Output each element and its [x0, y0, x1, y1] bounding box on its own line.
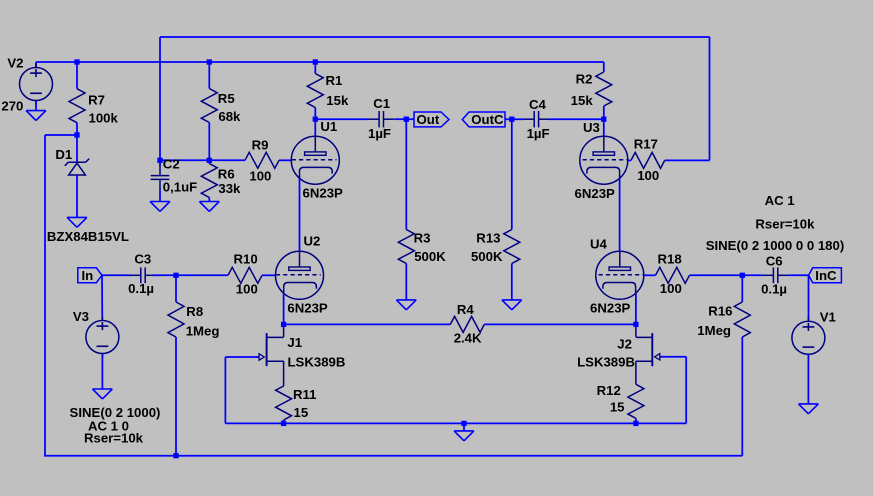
wire C4 to R2 node	[549, 118, 604, 120]
wire V3 top lead	[101, 275, 103, 320]
svg-text:1µF: 1µF	[527, 126, 550, 141]
voltage source V1	[792, 317, 825, 358]
wire D1 top lead	[76, 135, 78, 162]
svg-text:AC 1: AC 1	[765, 193, 795, 208]
svg-text:U1: U1	[320, 119, 337, 134]
svg-text:R5: R5	[218, 91, 235, 106]
svg-text:1Meg: 1Meg	[697, 323, 731, 338]
svg-text:R16: R16	[708, 304, 732, 319]
voltage source V3	[86, 317, 119, 358]
capacitor C4	[523, 111, 549, 127]
svg-text:C1: C1	[373, 96, 390, 111]
resistor R17	[628, 152, 710, 168]
svg-text:R12: R12	[597, 383, 621, 398]
svg-text:SINE(0 2 1000 0 0 180): SINE(0 2 1000 0 0 180)	[706, 238, 845, 253]
capacitor C6	[763, 267, 789, 283]
resistor R11	[276, 386, 292, 423]
wire top rail left drop	[159, 37, 161, 160]
svg-text:6N23P: 6N23P	[590, 301, 631, 316]
svg-text:0,1uF: 0,1uF	[163, 180, 197, 195]
svg-text:R3: R3	[414, 230, 431, 245]
wire C1 to Out node	[395, 118, 407, 120]
wire D1 bottom lead	[76, 175, 78, 218]
svg-text:C4: C4	[529, 97, 547, 112]
wire C2 top lead	[159, 160, 161, 166]
svg-text:OutC: OutC	[471, 112, 504, 127]
wire R6 node to R9	[209, 159, 245, 161]
svg-text:R11: R11	[293, 387, 316, 402]
wire R7 to D1 node	[45, 134, 77, 136]
resistor R6	[201, 160, 217, 202]
junction B+ R7	[74, 59, 79, 64]
triode U1	[291, 136, 339, 184]
svg-text:C6: C6	[766, 254, 783, 269]
net flag Out	[414, 112, 449, 127]
svg-text:1µF: 1µF	[368, 126, 391, 141]
resistor R2	[596, 62, 612, 119]
svg-text:U3: U3	[583, 120, 600, 135]
wire Out node to flag	[406, 118, 414, 120]
ground V3 ground	[93, 389, 113, 399]
svg-text:15: 15	[294, 405, 309, 420]
ground R6 ground	[199, 202, 219, 212]
svg-text:R18: R18	[658, 252, 682, 267]
wire V1 top lead	[808, 275, 810, 321]
svg-text:500K: 500K	[471, 249, 503, 264]
resistor R16	[734, 275, 750, 455]
svg-text:C3: C3	[134, 251, 151, 266]
wire C2 node to R6 node	[160, 159, 209, 161]
svg-text:R10: R10	[234, 251, 258, 266]
svg-text:R8: R8	[186, 304, 203, 319]
wire U1 cathode to U2 plate	[299, 178, 301, 251]
wire bottom rail	[44, 455, 742, 457]
wire J2 gate drop	[685, 357, 687, 424]
junction R7 D1	[74, 132, 79, 137]
JFET J2	[636, 324, 663, 384]
svg-text:Rser=10k: Rser=10k	[84, 430, 144, 445]
svg-text:J2: J2	[617, 337, 632, 352]
junction B+ R1	[313, 59, 318, 64]
svg-text:15k: 15k	[571, 93, 594, 108]
wire C6 to InC	[788, 274, 809, 276]
wire V3 bottom lead	[101, 354, 103, 390]
wire J2 gate wire	[661, 356, 686, 358]
resistor R13	[504, 119, 520, 300]
junction OutC	[509, 117, 514, 122]
junction R8 top	[173, 273, 178, 278]
ground C2 ground	[150, 202, 170, 212]
wire In flag to C3	[102, 274, 131, 276]
svg-text:100: 100	[637, 168, 659, 183]
resistor R7	[69, 62, 85, 135]
resistor R5	[201, 62, 217, 160]
junction R2 plate	[601, 117, 606, 122]
wire bottom gate bus	[225, 422, 686, 424]
svg-text:15k: 15k	[326, 93, 349, 108]
svg-text:V3: V3	[73, 309, 89, 324]
JFET J1	[256, 324, 284, 386]
wire R1 node to C1	[315, 118, 369, 120]
net flag In	[78, 268, 102, 283]
junction B+ R5	[207, 59, 212, 64]
ground V2 ground	[26, 111, 46, 121]
svg-text:100: 100	[249, 168, 271, 183]
junction R8 bottom	[173, 453, 178, 458]
capacitor C2	[151, 165, 170, 191]
voltage source V2	[20, 64, 53, 105]
svg-text:15: 15	[610, 399, 625, 414]
svg-text:0.1µ: 0.1µ	[761, 282, 787, 297]
wire V1 bottom lead	[807, 354, 809, 404]
triode U3	[580, 136, 628, 184]
junction Out	[404, 117, 409, 122]
junction bus ground	[461, 421, 466, 426]
wire U3 plate lead	[603, 119, 605, 136]
svg-text:R7: R7	[88, 92, 105, 107]
wire U2 cathode lead	[283, 294, 285, 325]
ground D1 ground	[67, 217, 87, 227]
resistor R8	[168, 275, 184, 455]
svg-text:V2: V2	[7, 55, 23, 70]
wire J1 gate wire	[225, 356, 258, 358]
wire U3 cathode to U4 plate	[619, 178, 621, 251]
svg-text:Rser=10k: Rser=10k	[755, 217, 815, 232]
svg-text:R4: R4	[457, 302, 475, 317]
svg-text:R2: R2	[576, 72, 593, 87]
svg-text:100k: 100k	[89, 110, 119, 125]
wire V2 top lead	[35, 62, 37, 68]
junction R16 top	[740, 273, 745, 278]
svg-text:6N23P: 6N23P	[575, 186, 616, 201]
wire V2 bottom lead	[35, 101, 37, 112]
ground R13 ground	[502, 300, 522, 310]
svg-text:C2: C2	[163, 156, 180, 171]
svg-text:68k: 68k	[218, 109, 241, 124]
capacitor C1	[368, 111, 394, 127]
resistor R4	[284, 316, 636, 332]
svg-text:0.1µ: 0.1µ	[128, 281, 154, 296]
junction C2	[157, 158, 162, 163]
svg-text:BZX84B15VL: BZX84B15VL	[47, 229, 129, 244]
svg-text:R6: R6	[218, 167, 235, 182]
svg-text:100: 100	[660, 281, 682, 296]
junction U2 cathode	[281, 322, 286, 327]
svg-text:1Meg: 1Meg	[186, 323, 220, 338]
svg-text:U2: U2	[304, 234, 321, 249]
capacitor C3	[130, 267, 156, 283]
svg-text:6N23P: 6N23P	[287, 300, 328, 315]
net flag InC	[809, 268, 842, 283]
svg-text:LSK389B: LSK389B	[288, 354, 346, 369]
wire R18 to C6	[742, 274, 763, 276]
ground R3 ground	[396, 300, 416, 310]
triode U2	[276, 251, 324, 299]
svg-text:500K: 500K	[414, 249, 446, 264]
wire U1 plate lead	[314, 119, 316, 136]
svg-text:Out: Out	[417, 112, 440, 127]
wire ground stub	[463, 423, 465, 431]
svg-text:R9: R9	[252, 137, 269, 152]
wire top rail right drop	[709, 37, 711, 160]
junction R12 bottom	[633, 421, 638, 426]
junction R11 bottom	[281, 421, 286, 426]
ground cathode bus ground	[454, 431, 474, 441]
net flag OutC	[462, 112, 505, 127]
resistor R1	[307, 62, 323, 119]
svg-text:R17: R17	[634, 136, 658, 151]
wire B+ rail	[36, 61, 604, 63]
wire C3 to R8 node	[153, 274, 176, 276]
svg-text:LSK389B: LSK389B	[577, 354, 635, 369]
wire OutC flag to node	[505, 118, 524, 120]
junction R5 R6	[207, 158, 212, 163]
ground V1 ground	[799, 404, 819, 414]
svg-text:D1: D1	[55, 147, 72, 162]
wire J1 gate drop	[224, 357, 226, 423]
triode U4	[596, 251, 644, 299]
svg-text:V1: V1	[820, 310, 836, 325]
wire left vertical rail	[44, 135, 46, 456]
junction U4 cathode	[633, 322, 638, 327]
svg-text:270: 270	[1, 99, 23, 114]
resistor R9	[245, 152, 291, 168]
wire top feedback rail	[160, 36, 710, 38]
svg-text:100: 100	[236, 282, 258, 297]
resistor R3	[398, 119, 414, 300]
svg-text:J1: J1	[287, 335, 302, 350]
svg-text:6N23P: 6N23P	[303, 186, 344, 201]
svg-text:In: In	[82, 268, 94, 283]
svg-text:R1: R1	[326, 73, 343, 88]
svg-text:2.4K: 2.4K	[454, 331, 482, 346]
resistor R18	[644, 267, 743, 283]
svg-text:33k: 33k	[218, 181, 241, 196]
junction R1 plate	[313, 117, 318, 122]
wire C2 bottom lead	[159, 191, 161, 203]
resistor R10	[176, 267, 276, 283]
wire U4 cathode lead	[635, 294, 637, 325]
svg-text:InC: InC	[815, 268, 837, 283]
svg-text:R13: R13	[476, 230, 500, 245]
zener diode D1	[65, 159, 89, 175]
svg-text:U4: U4	[590, 237, 608, 252]
resistor R12	[628, 384, 644, 423]
